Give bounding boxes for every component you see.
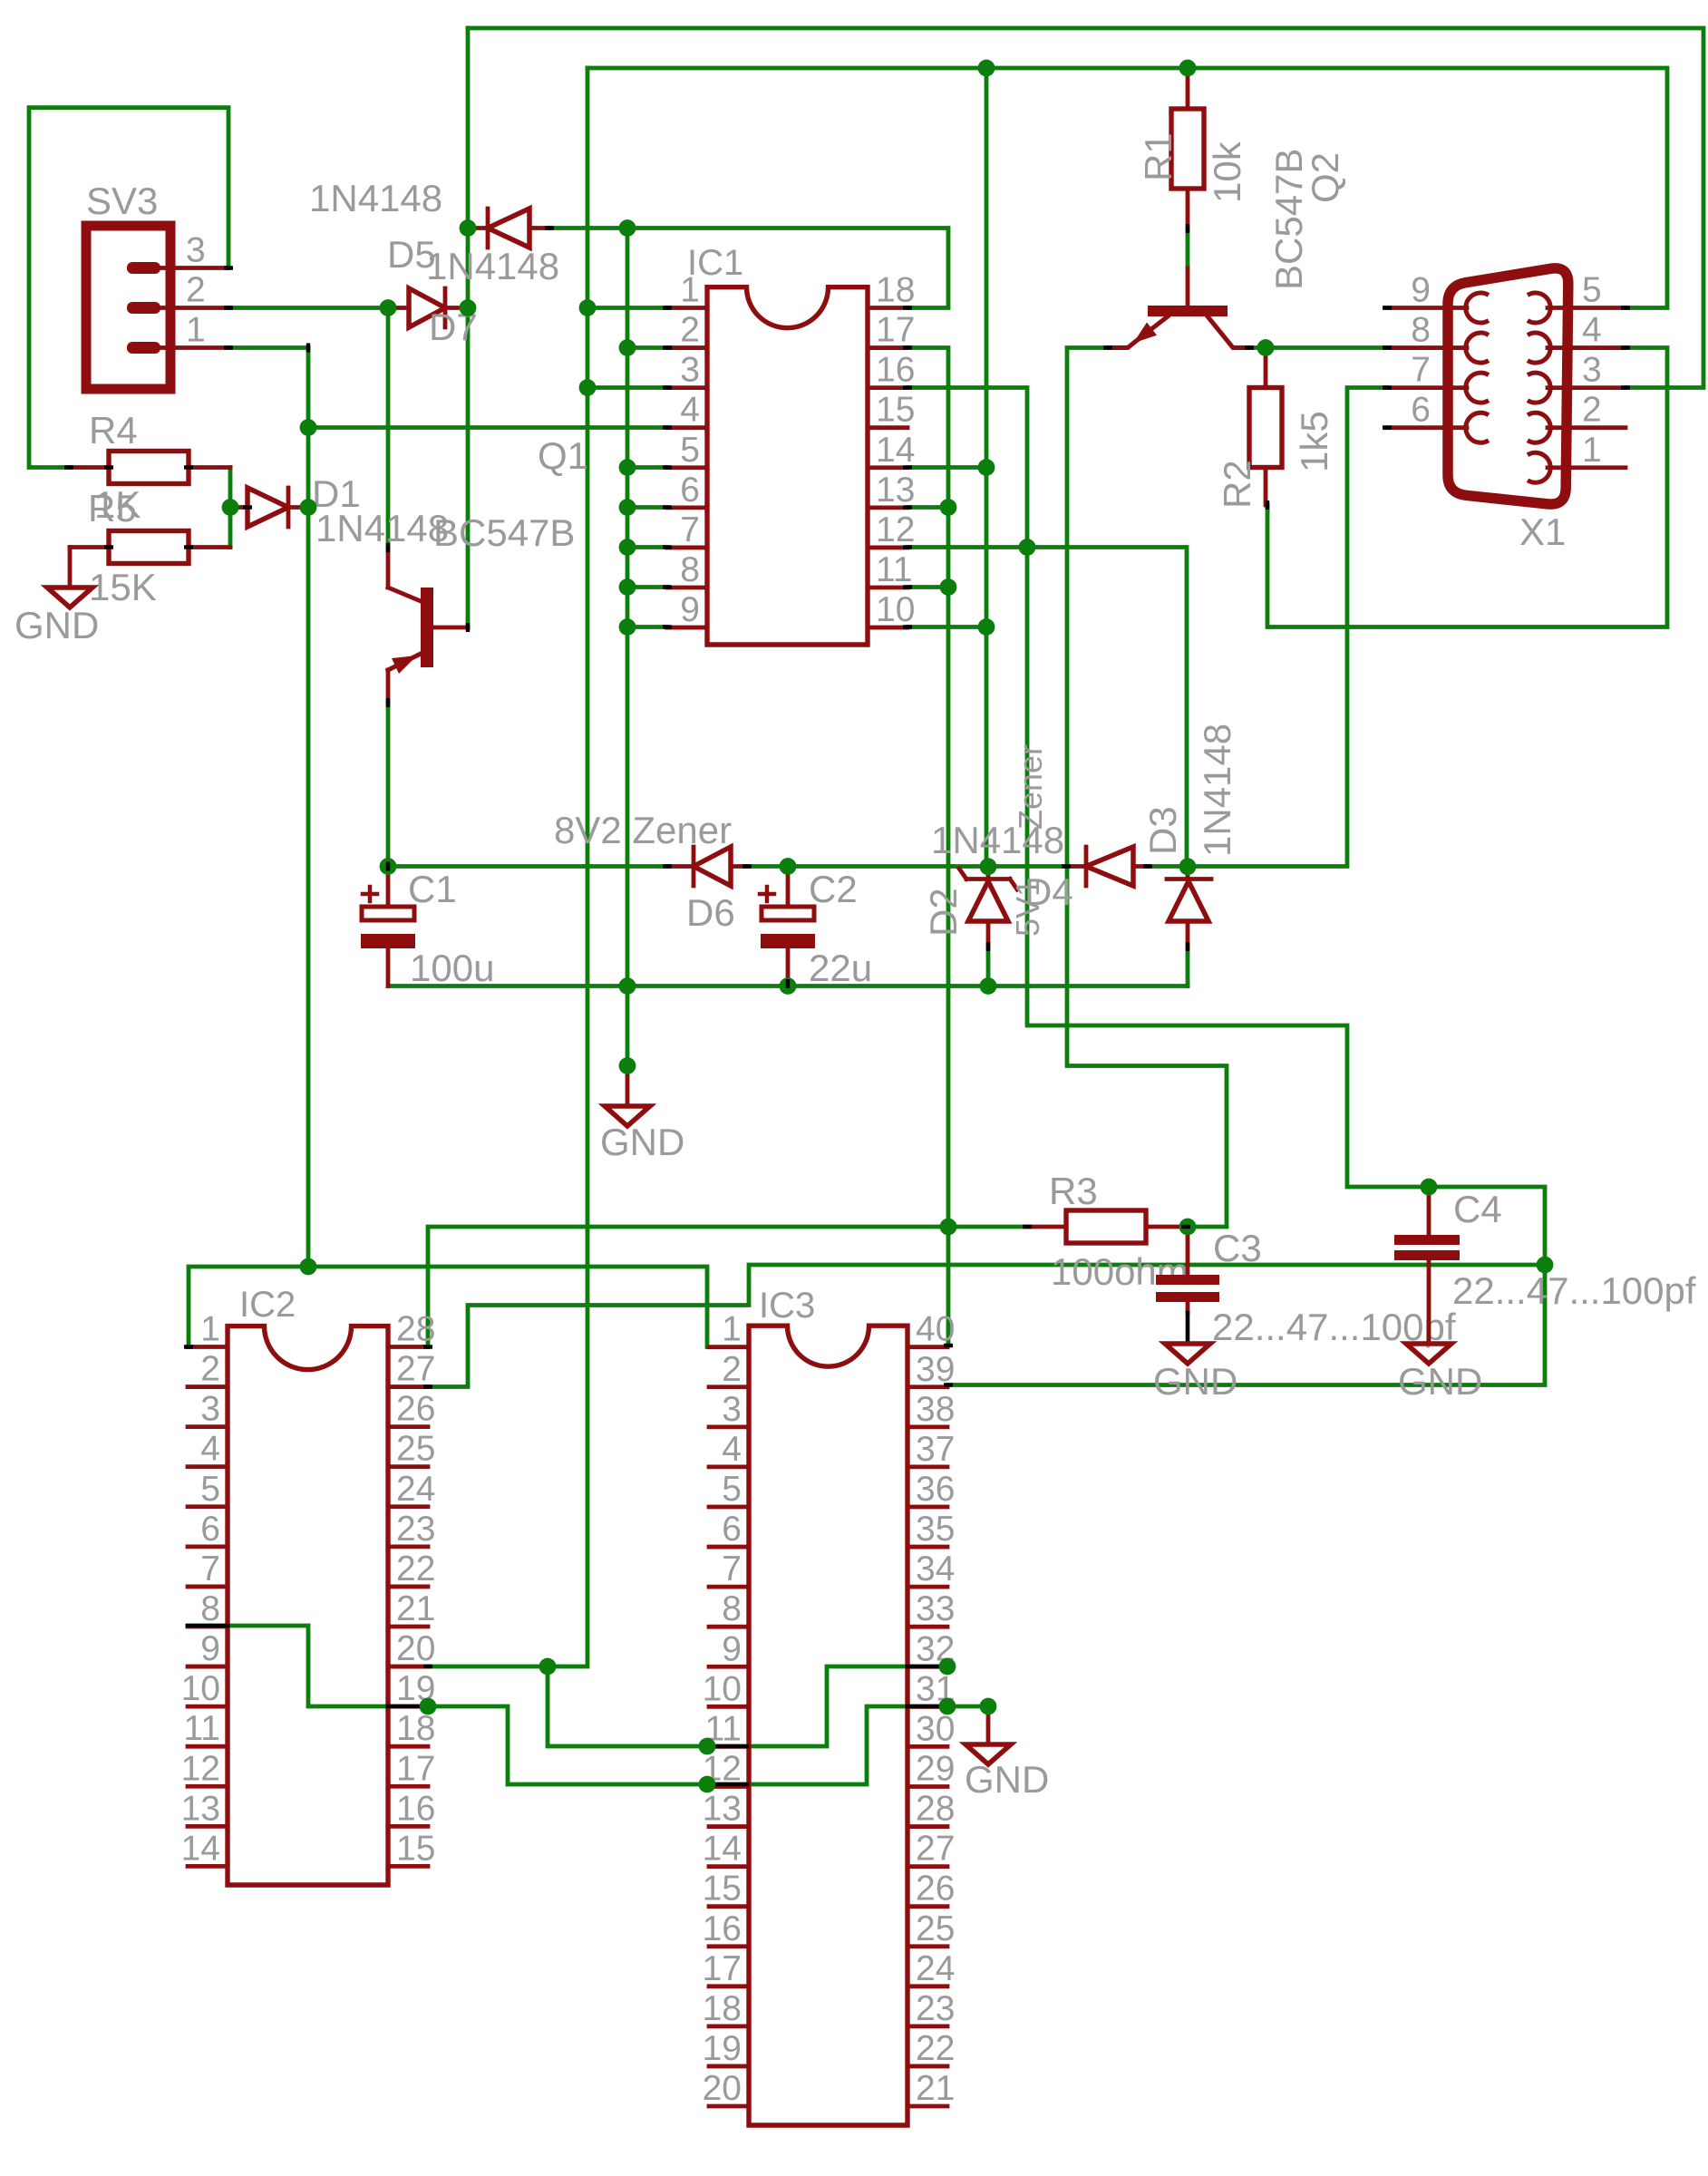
wire (627, 545, 667, 549)
svg-text:8: 8 (722, 1589, 742, 1628)
svg-text:1: 1 (722, 1310, 742, 1349)
pin end (224, 306, 233, 309)
svg-text:4: 4 (680, 391, 700, 430)
svg-text:28: 28 (916, 1790, 955, 1829)
svg-text:26: 26 (396, 1390, 435, 1429)
svg-text:38: 38 (916, 1390, 955, 1429)
resistor R3 (1027, 1170, 1189, 1293)
svg-text:24: 24 (916, 1949, 955, 1988)
svg-text:6: 6 (200, 1510, 220, 1549)
wire (1186, 947, 1190, 986)
wire (587, 68, 1667, 308)
pin end (64, 465, 73, 469)
svg-text:25: 25 (916, 1909, 955, 1948)
svg-text:14: 14 (181, 1829, 220, 1868)
svg-text:7: 7 (680, 510, 700, 549)
wire (627, 465, 667, 470)
pin end (1383, 425, 1392, 429)
svg-text:3: 3 (722, 1390, 742, 1429)
wire (388, 864, 667, 869)
junction (780, 977, 797, 995)
pin end (184, 465, 193, 469)
svg-text:34: 34 (916, 1549, 955, 1588)
svg-text:2: 2 (680, 311, 700, 350)
wire (627, 345, 667, 350)
pin end (1383, 306, 1392, 309)
wire (549, 228, 948, 308)
svg-text:R3: R3 (1049, 1170, 1098, 1212)
wire (707, 1744, 747, 1749)
wire (986, 947, 991, 986)
IC socket IC1 (18-pin) (667, 243, 915, 645)
junction (939, 1658, 956, 1676)
svg-text:33: 33 (916, 1589, 955, 1628)
pin end (1383, 345, 1392, 349)
pin end (903, 585, 912, 588)
svg-text:R5: R5 (88, 487, 137, 529)
capacitor C1 (100u) (361, 867, 494, 990)
wire (1249, 345, 1387, 350)
svg-text:C2: C2 (809, 868, 858, 910)
wire (428, 1265, 1545, 1387)
svg-text:3: 3 (680, 351, 700, 390)
wire (468, 28, 1703, 388)
svg-text:100ohm: 100ohm (1051, 1250, 1189, 1293)
svg-text:20: 20 (396, 1629, 435, 1668)
svg-text:GND: GND (600, 1121, 684, 1163)
resistor R1 (1137, 68, 1248, 228)
svg-text:1N4148: 1N4148 (426, 245, 559, 287)
wire (466, 28, 471, 627)
svg-text:C4: C4 (1453, 1188, 1502, 1230)
transistor Q2 (NPN BC547B) (1108, 149, 1346, 348)
junction (380, 858, 397, 875)
svg-text:35: 35 (916, 1510, 955, 1549)
svg-text:GND: GND (1153, 1360, 1237, 1403)
svg-text:D3: D3 (1141, 806, 1184, 855)
svg-text:D2: D2 (922, 888, 965, 937)
svg-text:IC3: IC3 (759, 1286, 815, 1326)
wire (747, 864, 1066, 869)
junction (1019, 539, 1036, 556)
pin end (1621, 306, 1630, 309)
wire (587, 385, 667, 390)
svg-text:6: 6 (680, 471, 700, 510)
svg-text:22: 22 (396, 1549, 435, 1588)
wire (29, 108, 228, 468)
svg-text:R2: R2 (1216, 460, 1258, 509)
junction (780, 858, 797, 875)
svg-text:18: 18 (396, 1709, 435, 1748)
wire (308, 425, 667, 430)
wire (228, 468, 233, 548)
pin end (663, 306, 672, 309)
svg-text:R4: R4 (89, 409, 138, 452)
pin end (663, 864, 672, 868)
junction (460, 219, 477, 237)
junction (978, 60, 995, 77)
diode D6 (554, 809, 747, 934)
wire (587, 306, 667, 310)
svg-text:3: 3 (186, 231, 206, 270)
wire (188, 1624, 228, 1628)
svg-text:7: 7 (1411, 351, 1431, 390)
junction (619, 539, 636, 556)
wire (1067, 348, 1227, 1228)
svg-text:21: 21 (396, 1589, 435, 1628)
svg-text:GND: GND (1398, 1360, 1482, 1403)
svg-text:6: 6 (1411, 391, 1431, 430)
pin end (663, 625, 672, 628)
pin end (1245, 345, 1254, 349)
svg-text:10: 10 (876, 590, 915, 629)
wire (707, 1783, 747, 1787)
pin end (1266, 500, 1269, 510)
wire (228, 306, 388, 310)
svg-text:23: 23 (396, 1510, 435, 1549)
svg-text:25: 25 (396, 1430, 435, 1469)
junction (222, 499, 239, 516)
svg-text:5: 5 (722, 1470, 742, 1509)
svg-text:1k5: 1k5 (1293, 411, 1335, 472)
svg-text:5: 5 (1582, 271, 1602, 310)
zener diode D2 (922, 744, 1049, 947)
svg-text:36: 36 (916, 1470, 955, 1509)
diode D3 (1141, 724, 1238, 947)
pin end (423, 1384, 432, 1388)
pin end (243, 505, 252, 509)
wire (1148, 388, 1387, 867)
svg-text:5V1: 5V1 (1009, 879, 1046, 937)
svg-text:17: 17 (703, 1949, 742, 1988)
pin end (663, 385, 672, 389)
junction (619, 459, 636, 476)
svg-text:2: 2 (200, 1350, 220, 1389)
pin end (663, 505, 672, 509)
wire (386, 703, 391, 867)
wire (907, 505, 948, 510)
svg-text:29: 29 (916, 1749, 955, 1788)
svg-text:23: 23 (916, 1989, 955, 2028)
wire (907, 465, 986, 470)
svg-text:10: 10 (181, 1669, 220, 1708)
svg-text:11: 11 (876, 550, 913, 589)
svg-text:24: 24 (396, 1470, 435, 1509)
pin end (1186, 942, 1189, 951)
resistor R5 (70, 487, 230, 608)
pin end (1181, 1225, 1190, 1229)
svg-text:4: 4 (200, 1430, 220, 1469)
svg-text:3: 3 (1582, 351, 1602, 390)
pin end (1621, 385, 1630, 389)
svg-text:15: 15 (876, 391, 915, 430)
wire (386, 308, 391, 549)
wire (627, 505, 667, 510)
junction (940, 499, 957, 516)
pin end (663, 545, 672, 549)
svg-text:13: 13 (876, 471, 915, 510)
junction (619, 977, 636, 995)
wire (188, 1626, 947, 1784)
pin end (663, 465, 672, 469)
junction (460, 299, 477, 316)
svg-text:15: 15 (703, 1870, 742, 1909)
capacitor C4 (1394, 1187, 1696, 1344)
svg-text:Q1: Q1 (538, 434, 588, 477)
junction (699, 1738, 716, 1755)
svg-text:100u: 100u (410, 947, 494, 989)
transistor Q1 (PNP BC547B) (388, 434, 588, 703)
pin end (224, 345, 233, 349)
svg-text:14: 14 (703, 1830, 742, 1869)
svg-text:20: 20 (703, 2069, 742, 2108)
svg-text:1: 1 (200, 1310, 220, 1349)
junction (1537, 1257, 1554, 1274)
pin end (1062, 864, 1071, 868)
junction (939, 1698, 956, 1715)
junction (300, 419, 317, 436)
svg-text:GND: GND (15, 604, 99, 646)
junction (1179, 1219, 1197, 1236)
svg-text:7: 7 (200, 1549, 220, 1588)
pin end (986, 942, 990, 951)
svg-text:8: 8 (200, 1589, 220, 1628)
junction (940, 578, 957, 596)
pin end (1621, 345, 1630, 349)
ground (1153, 1344, 1237, 1403)
diode D1 (230, 472, 449, 549)
svg-text:9: 9 (680, 590, 700, 629)
IC socket IC2 (28-pin) (181, 1285, 436, 1885)
junction (420, 1698, 437, 1715)
pin end (1143, 864, 1152, 868)
wire (388, 984, 1188, 988)
svg-text:2: 2 (1582, 391, 1602, 430)
pin end (944, 1383, 953, 1386)
svg-text:12: 12 (181, 1749, 220, 1788)
wire (428, 1227, 1027, 1347)
pin end (1383, 385, 1392, 389)
wire (907, 1705, 947, 1709)
junction (579, 299, 597, 316)
svg-text:27: 27 (916, 1830, 955, 1869)
IC socket IC3 (40-pin) (703, 1286, 956, 2125)
svg-text:16: 16 (396, 1789, 435, 1828)
svg-text:18: 18 (703, 1989, 742, 2028)
svg-text:2: 2 (186, 271, 206, 310)
junction (1179, 858, 1197, 875)
pin end (903, 505, 912, 509)
svg-text:2: 2 (722, 1350, 742, 1389)
pin end (423, 1665, 432, 1668)
svg-text:22: 22 (916, 2029, 955, 2068)
svg-text:15K: 15K (89, 566, 157, 608)
svg-text:C1: C1 (408, 868, 457, 910)
junction (980, 1698, 997, 1715)
svg-text:16: 16 (703, 1909, 742, 1948)
wire (1267, 348, 1667, 627)
svg-text:1: 1 (1582, 431, 1602, 470)
svg-text:BC547B: BC547B (433, 511, 575, 554)
svg-text:13: 13 (703, 1790, 742, 1829)
svg-text:21: 21 (916, 2069, 955, 2108)
svg-text:27: 27 (396, 1350, 435, 1389)
junction (539, 1658, 557, 1676)
junction (1179, 60, 1197, 77)
svg-text:17: 17 (876, 311, 915, 350)
capacitor C3 (1156, 1227, 1456, 1348)
junction (619, 578, 636, 596)
pin end (663, 585, 672, 588)
svg-text:C3: C3 (1213, 1227, 1262, 1269)
svg-text:1N4148: 1N4148 (1196, 724, 1238, 857)
junction (1257, 339, 1275, 356)
junction (619, 499, 636, 516)
svg-text:7: 7 (722, 1549, 742, 1588)
ground (15, 588, 99, 646)
svg-text:IC1: IC1 (687, 243, 743, 283)
wire (228, 348, 308, 1268)
pin end (306, 344, 310, 353)
diode D5 (309, 177, 549, 276)
pin end (903, 465, 912, 469)
wire (907, 548, 1187, 867)
svg-text:1N4148: 1N4148 (309, 177, 442, 219)
svg-text:14: 14 (876, 431, 915, 470)
svg-text:11: 11 (184, 1709, 221, 1748)
svg-text:R1: R1 (1137, 132, 1179, 181)
svg-text:5: 5 (680, 431, 700, 470)
svg-text:1: 1 (186, 311, 206, 350)
svg-text:40: 40 (916, 1310, 955, 1349)
svg-text:18: 18 (876, 271, 915, 310)
junction (980, 858, 997, 875)
svg-text:8: 8 (1411, 311, 1431, 350)
pin end (545, 226, 554, 229)
junction (980, 977, 997, 995)
pin end (466, 623, 470, 632)
svg-text:37: 37 (916, 1430, 955, 1469)
pin end (1103, 345, 1112, 349)
pin end (1186, 224, 1189, 233)
junction (619, 219, 636, 237)
pin end (903, 385, 912, 389)
pin end (104, 465, 113, 469)
junction (380, 299, 397, 316)
svg-text:6: 6 (722, 1510, 742, 1549)
ground (1398, 1344, 1482, 1403)
wire (627, 585, 667, 589)
junction (579, 379, 597, 396)
junction (300, 1258, 317, 1276)
wire (907, 348, 948, 1346)
junction (619, 618, 636, 636)
pin end (742, 864, 752, 868)
svg-text:15: 15 (396, 1829, 435, 1868)
diode D4 (931, 819, 1148, 913)
pin end (1023, 1225, 1032, 1229)
junction (699, 1776, 716, 1793)
svg-text:22u: 22u (809, 947, 872, 989)
pin end (903, 545, 912, 549)
svg-text:9: 9 (722, 1629, 742, 1668)
junction (940, 1219, 957, 1236)
svg-text:Zener: Zener (1012, 744, 1049, 830)
wire (548, 1666, 947, 1746)
junction (300, 499, 317, 516)
wire (1186, 228, 1190, 268)
pin end (663, 425, 672, 429)
svg-text:Q2: Q2 (1304, 152, 1346, 203)
svg-text:9: 9 (1411, 271, 1431, 310)
svg-text:8V2 Zener: 8V2 Zener (554, 809, 732, 851)
svg-text:X1: X1 (1519, 510, 1566, 553)
svg-text:D6: D6 (686, 891, 735, 934)
wire (189, 1267, 707, 1347)
pin end (184, 545, 193, 549)
junction (619, 339, 636, 356)
svg-text:26: 26 (916, 1870, 955, 1909)
pin end (786, 979, 790, 988)
connector SV3 (86, 180, 228, 389)
wire (627, 625, 667, 629)
svg-text:10: 10 (703, 1669, 742, 1708)
wire (907, 1665, 947, 1669)
pin end (903, 306, 912, 309)
svg-text:5: 5 (200, 1470, 220, 1509)
wire (907, 625, 986, 629)
wire (907, 585, 948, 589)
svg-text:30: 30 (916, 1709, 955, 1748)
pin end (903, 625, 912, 628)
svg-text:4: 4 (722, 1430, 742, 1469)
wire (985, 68, 989, 867)
pin end (423, 1345, 432, 1348)
svg-text:1N4148: 1N4148 (315, 507, 449, 549)
pin end (224, 266, 233, 269)
ground (965, 1706, 1049, 1801)
pin end (944, 1344, 953, 1347)
junction (978, 618, 995, 636)
resistor R2 (1216, 348, 1335, 510)
connector X1 (DB9) (1385, 268, 1626, 553)
pin end (386, 543, 390, 552)
svg-text:19: 19 (703, 2029, 742, 2068)
pin end (903, 345, 912, 349)
junction (619, 1057, 636, 1074)
junction (978, 459, 995, 476)
svg-text:IC2: IC2 (239, 1285, 296, 1325)
wire (947, 1705, 988, 1709)
resistor R4 (69, 409, 230, 526)
pin end (663, 345, 672, 349)
pin end (184, 1345, 193, 1348)
wire (907, 388, 1545, 1385)
svg-text:13: 13 (181, 1789, 220, 1828)
capacitor C2 (22u) (760, 867, 872, 989)
wire (626, 228, 630, 1066)
svg-text:28: 28 (396, 1310, 435, 1349)
svg-text:12: 12 (876, 510, 915, 549)
ground (600, 1066, 684, 1164)
svg-text:17: 17 (396, 1749, 435, 1788)
svg-text:9: 9 (200, 1629, 220, 1668)
pin end (386, 862, 390, 871)
svg-text:10k: 10k (1206, 141, 1248, 203)
svg-text:3: 3 (200, 1390, 220, 1429)
wire (428, 68, 587, 1666)
svg-text:8: 8 (680, 550, 700, 589)
